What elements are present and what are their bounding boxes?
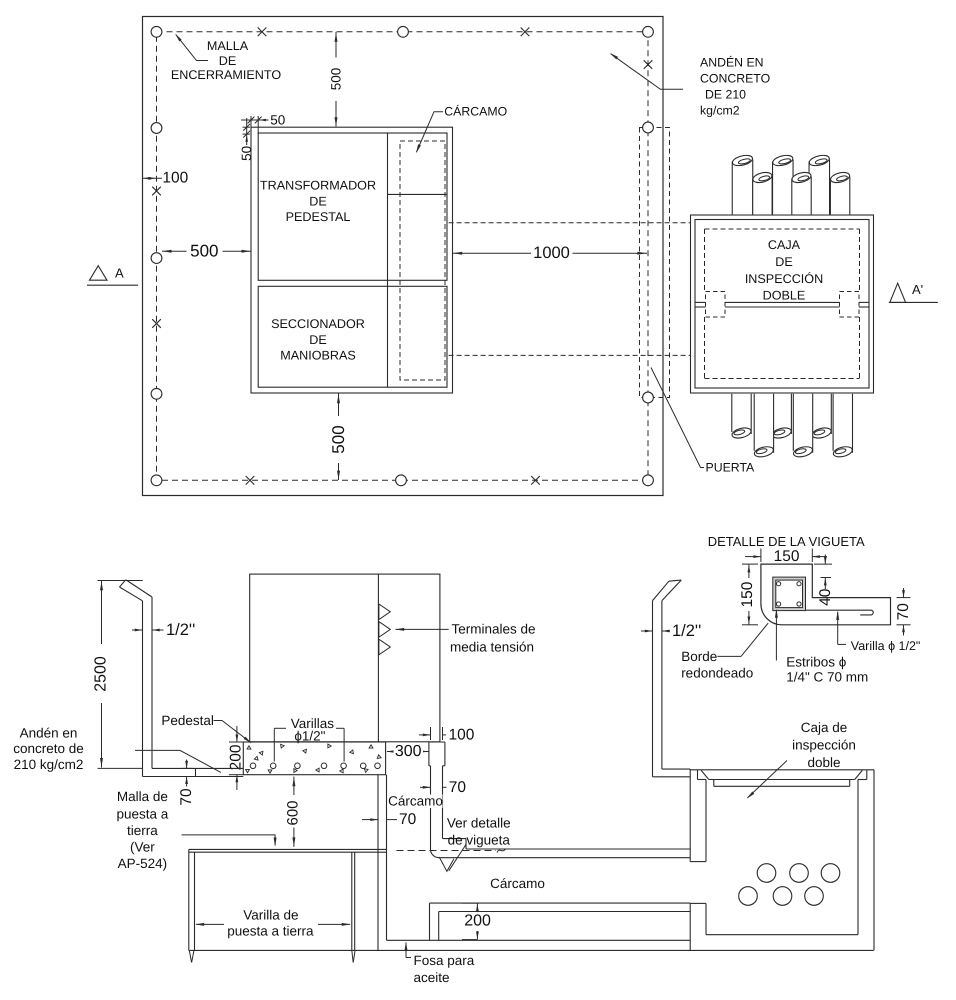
plan: conduit pipes above caja (back row) [732, 161, 753, 215]
svg-text:50: 50 [239, 146, 254, 161]
svg-text:ANDÉN EN: ANDÉN EN [700, 56, 764, 70]
section: trench right wall top block [429, 741, 445, 743]
section: medium voltage terminals (3 marks) [379, 604, 390, 620]
svg-text:AP-524): AP-524) [118, 856, 168, 871]
plan: caja dashed notch square right [840, 292, 860, 318]
leader puerta [651, 368, 704, 468]
svg-text:puesta a: puesta a [117, 807, 169, 822]
svg-text:DE: DE [309, 333, 327, 347]
svg-text:DE 210: DE 210 [705, 88, 746, 102]
svg-text:500: 500 [329, 425, 348, 453]
svg-text:aceite: aceite [414, 970, 450, 985]
detail: joist L-profile [761, 564, 891, 625]
svg-text:CÁRCAMO: CÁRCAMO [444, 104, 507, 118]
caja section: lid chamfer [701, 770, 709, 779]
section: pedestal slab [243, 742, 385, 775]
section marker A-prime [890, 283, 906, 302]
plan: fence posts (circles) [151, 26, 162, 37]
plan: caja dashed notch square left [706, 292, 726, 318]
svg-text:500: 500 [190, 242, 218, 261]
detail dimension 150 left [742, 563, 758, 565]
dimension 500 bottom [338, 394, 340, 417]
detail: rebar with hook (varilla) [806, 610, 873, 615]
plan: horizontal divider in right column [388, 193, 448, 195]
leader fosa para aceite [405, 943, 407, 958]
dimension 50 vertical at pad corner [243, 126, 251, 128]
plan: conduit pipes above caja (front row) [753, 178, 772, 215]
svg-text:200: 200 [464, 913, 491, 930]
caja section: inner bottom [706, 934, 858, 936]
leader caja de inspeccion doble [748, 761, 788, 798]
plan: carcamo dashed rectangle [400, 141, 445, 380]
svg-text:70: 70 [399, 811, 417, 828]
svg-text:ENCERRAMIENTO: ENCERRAMIENTO [171, 68, 282, 82]
section: pedestal aggregate speckles [247, 746, 251, 749]
plan: caja dashed inner outline [705, 228, 860, 230]
svg-text:DE: DE [309, 195, 327, 209]
plan: dashed duct line lower (transformer to caja) [449, 354, 691, 356]
caja section: left wall cap at duct opening [690, 861, 706, 863]
detail dimension 150 top [760, 549, 762, 563]
plan: fence dashed line (malla de encerramiento) [157, 32, 649, 481]
svg-text:70: 70 [449, 779, 467, 796]
caja section: right wall top step [866, 770, 868, 780]
section: oil trench left wall (carcamo) [377, 775, 379, 951]
svg-text:150: 150 [739, 581, 756, 607]
svg-text:INSPECCIÓN: INSPECCIÓN [745, 272, 823, 286]
svg-text:A': A' [912, 282, 923, 297]
dimension 1/2-inch right [641, 630, 653, 632]
svg-text:Malla de: Malla de [117, 789, 168, 804]
dimension 300 [387, 751, 404, 753]
svg-text:Ver detalle: Ver detalle [447, 815, 511, 830]
leader malla de encerramiento [176, 35, 208, 61]
section: pit left wall [188, 849, 190, 950]
svg-text:500: 500 [329, 68, 344, 91]
svg-text:Fosa para: Fosa para [414, 953, 475, 968]
varilla arrows [196, 923, 224, 925]
caja section: inner right wall [857, 780, 859, 935]
svg-text:Caja de: Caja de [801, 720, 848, 735]
leader terminales de media tension [396, 628, 449, 630]
svg-text:210 kg/cm2: 210 kg/cm2 [14, 757, 84, 772]
section marker A [90, 266, 108, 281]
dimension 600 [293, 777, 295, 796]
svg-text:Varilla ϕ 1/2": Varilla ϕ 1/2" [851, 639, 921, 653]
dimension 2500 [98, 580, 143, 582]
plan: caja de inspeccion inner rect [695, 220, 869, 389]
svg-text:Cárcamo: Cárcamo [388, 794, 443, 809]
svg-text:tierra: tierra [127, 823, 158, 838]
detail dimension 70 [897, 597, 911, 599]
section: right fence post (bent top) [652, 601, 654, 777]
svg-text:Borde: Borde [681, 649, 717, 664]
svg-text:DETALLE DE LA VIGUETA: DETALLE DE LA VIGUETA [708, 534, 865, 549]
section: transformer body [250, 574, 440, 742]
svg-text:300: 300 [395, 743, 422, 760]
svg-text:MANIOBRAS: MANIOBRAS [280, 349, 356, 363]
svg-text:Cárcamo: Cárcamo [490, 876, 545, 891]
section: ground lines between post and caja [662, 768, 690, 770]
detail: stirrup square (estribo) [773, 577, 806, 611]
svg-text:Estribos ϕ: Estribos ϕ [786, 654, 847, 669]
dimension 100 wall top [430, 727, 432, 740]
svg-text:doble: doble [807, 755, 840, 770]
label Carcamo right [389, 795, 443, 809]
ground rod left tip [189, 950, 191, 962]
svg-text:CAJA: CAJA [768, 238, 801, 252]
section: left fence post (bent top) [142, 601, 144, 777]
svg-text:150: 150 [774, 548, 800, 565]
svg-text:de vigueta: de vigueta [448, 833, 511, 848]
plan: transformer inner box (transformador de pedestal) [258, 133, 447, 280]
leader malla de puesta a tierra [182, 835, 276, 846]
leader pedestal [214, 721, 251, 743]
caja section: inner left wall [705, 780, 707, 862]
svg-text:70: 70 [895, 603, 912, 621]
svg-text:PUERTA: PUERTA [706, 460, 756, 474]
section: ground mesh slab (double line) [189, 848, 387, 850]
svg-text:1/4" C 70 mm: 1/4" C 70 mm [786, 669, 868, 684]
section: sidewalk slab left (anden) [152, 767, 243, 769]
svg-text:concreto de: concreto de [13, 741, 84, 756]
svg-text:CONCRETO: CONCRETO [700, 72, 770, 86]
dimension 500 top [335, 32, 337, 58]
plan: caja de inspeccion outer rect [691, 215, 874, 393]
svg-text:redondeado: redondeado [681, 665, 753, 680]
svg-text:ϕ1/2": ϕ1/2" [294, 728, 325, 743]
plan: conduit pipes below caja (front row) [754, 394, 773, 452]
dimension 1000 [453, 252, 532, 254]
section: lower duct roof lines [430, 902, 691, 904]
leader anden en concreto section [135, 750, 221, 772]
plan: dashed duct line upper (transformer to caja) [449, 222, 691, 224]
dimension 200 duct [462, 902, 479, 904]
section: transformer body divider [377, 574, 379, 742]
svg-text:70: 70 [178, 788, 195, 806]
leader ver detalle (V marks) [449, 845, 466, 871]
detail dimension 40 [814, 563, 832, 565]
plan: fence X marks [258, 28, 267, 37]
plan: gate (puerta) dashed rectangle [640, 128, 670, 398]
svg-text:Terminales de: Terminales de [452, 622, 536, 637]
dimension 100 left [143, 177, 163, 179]
svg-text:Pedestal: Pedestal [161, 713, 214, 728]
svg-text:600: 600 [285, 800, 302, 825]
svg-text:TRANSFORMADOR: TRANSFORMADOR [260, 179, 376, 193]
dimension 50 horizontal at pad corner [250, 116, 252, 128]
svg-text:media tensión: media tensión [450, 640, 534, 655]
svg-text:puesta a tierra: puesta a tierra [227, 923, 314, 938]
dimension 500 left [162, 250, 187, 252]
leader varilla detail [837, 612, 839, 645]
dimension 1/2-inch left [132, 629, 143, 631]
svg-text:inspección: inspección [792, 738, 856, 753]
plan: concrete pad outer border [143, 17, 664, 496]
svg-text:100: 100 [449, 726, 475, 743]
plan: gate end posts [643, 122, 654, 133]
svg-text:1/2'': 1/2'' [672, 622, 701, 640]
svg-text:2500: 2500 [93, 656, 110, 692]
svg-text:DOBLE: DOBLE [763, 289, 806, 303]
svg-text:Andén en: Andén en [20, 726, 78, 741]
caja section: top edge [690, 769, 874, 771]
plan: conduit pipes below caja (back row) [732, 394, 751, 433]
svg-text:(Ver: (Ver [130, 839, 155, 854]
dimension 70 trench wall [362, 819, 378, 821]
leader carcamo plan [417, 112, 444, 152]
dimension 70 wall upper [420, 786, 431, 788]
svg-text:SECCIONADOR: SECCIONADOR [271, 317, 365, 331]
leader anden en concreto [611, 54, 683, 90]
dimension 70 sidewalk [181, 767, 192, 769]
caja section: left wall top step [697, 770, 699, 780]
section: pedestal rebar circles (varillas) [250, 763, 256, 769]
svg-text:200: 200 [227, 744, 244, 770]
svg-text:DE: DE [775, 255, 793, 269]
caja section: outer left wall [689, 769, 691, 862]
svg-text:100: 100 [162, 169, 188, 186]
caja section: outer right wall [873, 770, 875, 951]
plan: transformer pad outer rectangle [251, 127, 453, 393]
ground rod right (varilla) [351, 852, 353, 950]
svg-text:40: 40 [817, 588, 834, 606]
svg-text:DE: DE [219, 54, 237, 68]
leader estribos [775, 610, 777, 661]
svg-text:Varilla de: Varilla de [243, 908, 298, 923]
plan: switch inner box (seccionador de maniobras) [258, 286, 447, 387]
svg-text:1000: 1000 [533, 244, 570, 262]
svg-text:MALLA: MALLA [207, 39, 249, 53]
svg-text:50: 50 [270, 113, 285, 128]
section: duct end wall verticals [429, 903, 431, 940]
varillas leader bracket [273, 728, 275, 761]
plan: caja middle partition lines [695, 301, 706, 303]
section: pit bottom line (continuous) [189, 949, 874, 951]
plan: vertical divider inside pad [387, 133, 389, 387]
caja section: drain holes (circles) [757, 864, 776, 883]
detail: rebar dots [777, 582, 781, 586]
section: dashed center line at joist level [397, 850, 497, 852]
section: trench right wall / joist (vigueta) profile [430, 766, 432, 849]
svg-text:A: A [115, 265, 124, 280]
dimension 200 pedestal [229, 741, 244, 743]
leader borde redondeado [718, 655, 742, 657]
svg-text:1/2'': 1/2'' [166, 621, 195, 639]
svg-text:PEDESTAL: PEDESTAL [286, 210, 351, 224]
section: oil trench floor inner (fosa) [387, 939, 691, 941]
svg-text:kg/cm2: kg/cm2 [700, 104, 740, 118]
